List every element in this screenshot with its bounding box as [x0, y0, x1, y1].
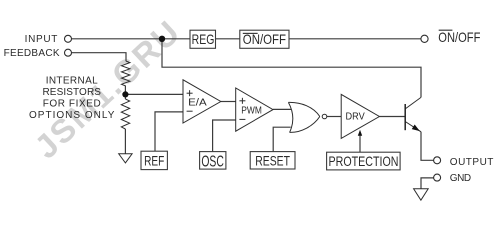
- svg-text:FOR FIXED: FOR FIXED: [43, 99, 101, 110]
- svg-text:OSC: OSC: [201, 153, 224, 170]
- svg-text:REF: REF: [144, 152, 164, 168]
- svg-text:ON/OFF: ON/OFF: [438, 29, 480, 45]
- svg-text:PROTECTION: PROTECTION: [329, 153, 399, 169]
- svg-text:RESISTORS: RESISTORS: [42, 87, 101, 98]
- svg-text:INPUT: INPUT: [25, 34, 58, 45]
- svg-text:INTERNAL: INTERNAL: [46, 76, 98, 87]
- svg-text:FEEDBACK: FEEDBACK: [4, 48, 60, 59]
- svg-text:OPTIONS ONLY: OPTIONS ONLY: [29, 110, 115, 121]
- svg-text:GND: GND: [450, 173, 471, 184]
- svg-text:ON/OFF: ON/OFF: [243, 31, 286, 47]
- svg-text:REG: REG: [192, 31, 215, 47]
- svg-text:DRV: DRV: [346, 111, 365, 123]
- svg-text:OUTPUT: OUTPUT: [450, 157, 494, 168]
- svg-text:E/A: E/A: [188, 97, 207, 109]
- svg-text:PWM: PWM: [241, 104, 262, 116]
- svg-text:RESET: RESET: [255, 152, 290, 168]
